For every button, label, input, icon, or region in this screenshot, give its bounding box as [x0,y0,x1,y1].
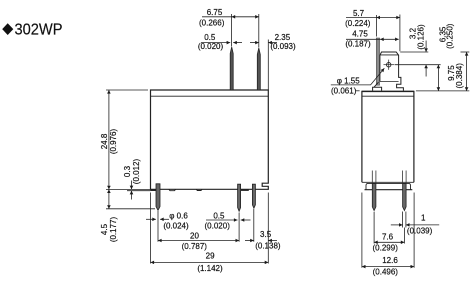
bottom standoff pad left [151,189,160,191]
dimension 2.35 [250,40,277,90]
svg-text:2.35: 2.35 [275,33,291,42]
svg-text:(0.039): (0.039) [407,226,433,235]
dimension phi 0.6 pin1 [146,218,169,220]
svg-text:302WP: 302WP [15,21,63,38]
svg-text:(1.142): (1.142) [197,264,223,273]
svg-text:(0.093): (0.093) [270,42,296,51]
svg-text:φ 1.55: φ 1.55 [337,76,361,85]
dimension 20 pin spacing [158,211,239,242]
dimension 0.5 top pin width [201,42,242,44]
svg-text:(0.061): (0.061) [331,86,357,95]
tab hole crosshair [387,62,391,66]
top pin B [257,48,260,90]
svg-text:7.6: 7.6 [382,232,394,241]
cover seam line [151,95,269,97]
bottom standoff dip 1 [169,189,176,190]
svg-text:(0.024): (0.024) [163,221,189,230]
dimension 9.75 [466,52,468,91]
dimension 6.75 top pin spacing [202,14,259,48]
dimension 12.6 [362,193,414,268]
bottom pin 2 [238,184,241,211]
top pin A [230,47,233,90]
svg-text:0.5: 0.5 [204,33,216,42]
svg-text:φ 0.6: φ 0.6 [169,212,188,221]
svg-text:(0.012): (0.012) [132,158,141,184]
svg-text:0.5: 0.5 [213,211,225,220]
svg-text:(0.496): (0.496) [373,268,399,277]
tab folded top inner line [380,54,399,56]
hidden pin lines in base right [403,171,407,184]
dimension 1 pin width [391,212,439,228]
leader phi 1.55 [331,68,385,85]
side pin left [372,184,376,211]
svg-text:20: 20 [190,231,199,240]
dimension 5.7 [346,15,400,52]
svg-text:0.3: 0.3 [123,165,132,177]
svg-text:(0.299): (0.299) [373,243,399,252]
svg-text:3.5: 3.5 [260,230,272,239]
cover top edge thick [362,90,414,92]
mounting tab gray plate [376,38,379,85]
relay body outline (front view) [151,90,269,189]
svg-text:24.8: 24.8 [100,133,109,149]
svg-text:6.75: 6.75 [207,8,223,17]
dimension 0.5 pin2 width [206,219,251,221]
dimension 4.75 [346,38,399,40]
base block [366,183,411,189]
title diamond bullet [2,23,13,35]
mounting tab tower outline [380,52,404,91]
bottom pin 1 [156,184,160,211]
tab inner line [380,81,399,83]
dimension 4.5 pin length [106,189,155,208]
dimension 0.3 standoff: arrows [131,181,133,200]
dimension 3.2 arrows [425,41,427,53]
side pin right [403,184,407,211]
cover seam line side [362,95,414,97]
svg-text:(0.787): (0.787) [182,242,208,251]
bottom pin 3 [252,184,255,208]
relay cover outline (side view) [362,91,414,182]
dimension 24.8 height: extension lines [106,90,151,191]
bottom standoff dip 2 [196,189,202,190]
svg-text:(0.266): (0.266) [199,19,225,28]
dimension 3.5 [245,209,277,242]
dimension 3.2 extension lines [355,41,469,91]
svg-text:(0.177): (0.177) [109,216,118,242]
svg-text:4.75: 4.75 [352,30,368,39]
tab left foot [373,82,382,91]
bottom standoff pad right [241,189,249,191]
svg-text:(0.224): (0.224) [345,19,371,28]
dimension 24.8 line [108,90,110,189]
svg-text:(0.250): (0.250) [446,23,455,49]
svg-text:4.5: 4.5 [100,223,109,235]
cover bottom parting line [362,181,414,183]
svg-text:29: 29 [206,252,215,261]
svg-text:(0.187): (0.187) [345,40,371,49]
svg-text:1: 1 [421,213,426,222]
svg-text:12.6: 12.6 [382,256,398,265]
svg-text:5.7: 5.7 [353,9,365,18]
svg-text:(0.126): (0.126) [416,24,425,50]
dimension 7.6 [374,212,404,244]
base bottom edge [365,189,413,191]
dimension 29 overall width [151,193,269,264]
hidden pin lines in base left [372,171,376,184]
svg-text:(0.976): (0.976) [109,128,118,154]
svg-text:(0.020): (0.020) [205,221,231,230]
dimension 6.35 [437,65,439,91]
svg-text:(0.384): (0.384) [455,63,464,89]
svg-text:(0.020): (0.020) [198,42,224,51]
